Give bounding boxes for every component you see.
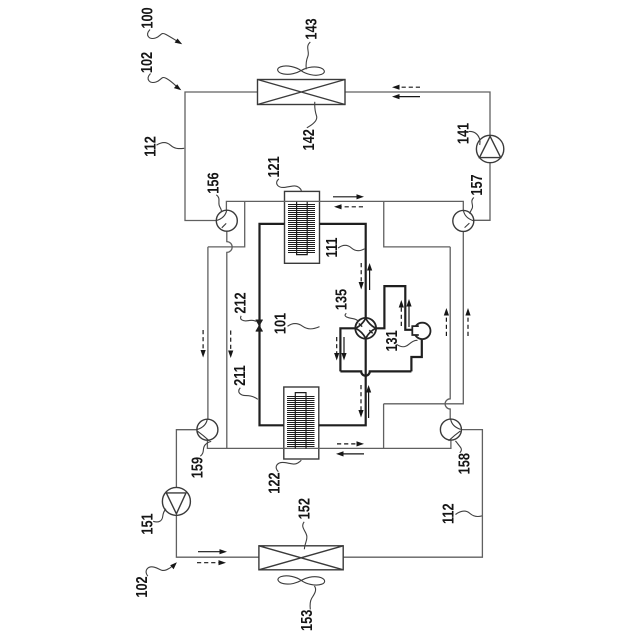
svg-text:142: 142: [301, 129, 319, 150]
compressor 131 (circle with terminal tab): [412, 323, 430, 339]
svg-text:212: 212: [232, 292, 250, 313]
label 159 with leader: [189, 441, 211, 478]
refrigerant U-tube inside HX 122: [295, 393, 306, 449]
flow arrows: right of HX121: [333, 194, 364, 209]
flow arrows: refrigerant line above valve 135: [359, 263, 373, 290]
svg-text:102: 102: [139, 52, 157, 73]
svg-text:153: 153: [299, 610, 317, 631]
wire: refrigerant loop left side (HX121 left - pipe 211 - HX122 left): [260, 224, 285, 425]
svg-text:112: 112: [142, 136, 160, 157]
svg-text:141: 141: [455, 123, 473, 144]
wire: left vertical to valve 159 top: [207, 247, 209, 430]
flow arrows: left water verticals (pointing down): [201, 330, 234, 358]
wire: valve 157 bottom down then left: [384, 221, 464, 404]
label 122 with leader: [266, 460, 301, 494]
svg-text:158: 158: [456, 453, 474, 474]
svg-text:135: 135: [333, 289, 351, 310]
four-way valve 135 (circle with diamond): [355, 318, 376, 339]
flow arrows: compressor discharge riser (pointing up): [399, 299, 412, 327]
three-way valve 158: [440, 419, 461, 441]
label 152 with leader: [296, 498, 314, 549]
label 111 with leader: [324, 238, 365, 258]
three-way valve 156: [216, 210, 237, 231]
pump 151 (circle with triangle, apex down): [162, 487, 190, 515]
wire: suction line with hop over main pipe: [340, 371, 411, 375]
wire: left branch from top line down (T at x=244.7): [208, 201, 245, 247]
wire: top water loop left (HX142 left to valve 156): [185, 92, 258, 221]
heat exchanger 122 (indoor plate HX, outer box): [284, 387, 319, 459]
flow arrows: refrigerant line below valve 135: [358, 385, 371, 418]
wire: refrigerant loop right bottom (valve 135 to HX122 right): [319, 339, 366, 426]
label 101 with leader: [272, 313, 319, 334]
svg-text:121: 121: [266, 156, 284, 177]
label 142 with leader: [301, 102, 319, 151]
label 135 with leader: [333, 289, 358, 321]
label 156 with leader: [205, 172, 223, 212]
svg-text:102: 102: [134, 576, 152, 597]
svg-text:211: 211: [232, 365, 250, 386]
wire: bottom water loop left (valve 159 through pump 151 to HX152): [176, 430, 259, 558]
refrigerant U-tube inside HX 121: [297, 202, 308, 255]
label 211 with leader: [232, 365, 258, 399]
flow arrows: right of HX122: [336, 441, 364, 456]
svg-text:159: 159: [189, 457, 207, 478]
fan 153 (propeller): [278, 576, 325, 585]
svg-text:157: 157: [469, 174, 487, 195]
three-way valve 157: [453, 210, 474, 231]
label 157 with leader: [469, 174, 487, 213]
hatch fins of heat exchanger 122: [287, 397, 315, 447]
label 102 (bottom) with arrow leader: [134, 562, 177, 597]
heat exchanger 121 (indoor plate HX, outer box): [285, 191, 320, 263]
label 131 with leader: [384, 330, 418, 351]
label 212 with leader: [232, 292, 256, 321]
three-way valve 159: [197, 419, 218, 441]
svg-text:112: 112: [440, 503, 458, 524]
flow arrows: right water verticals (pointing up): [444, 308, 471, 336]
wire: inner bottom water line (valve 159 bottom - HX122 - valve 158 bottom): [207, 430, 451, 449]
flow arrows: bottom outer loop (pointing right): [197, 549, 227, 565]
flow arrows: valve 135 left suction drop (pointing down): [334, 337, 347, 361]
label 121 with leader: [266, 156, 302, 191]
fan 143 (propeller): [278, 66, 325, 75]
wire: refrigerant loop right top (HX121 right to four-way valve 135): [320, 224, 366, 318]
label 158 with leader: [455, 441, 474, 474]
svg-text:143: 143: [303, 18, 321, 39]
label 143 with leader: [303, 18, 321, 69]
svg-text:152: 152: [296, 498, 314, 519]
svg-text:131: 131: [384, 330, 402, 351]
label 153 with leader: [299, 586, 317, 631]
heat exchanger 152 (outdoor coil, crossed box): [259, 546, 343, 570]
label 100 with arrow leader: [139, 7, 182, 44]
wire: bottom water loop right (valve 158 to HX152 right): [343, 430, 482, 558]
heat exchanger 142 (outdoor coil, crossed box): [258, 80, 346, 105]
svg-text:151: 151: [139, 513, 157, 534]
label 102 (top) with arrow leader: [139, 52, 181, 90]
expansion valve 212 (bowtie on pipe 211): [256, 320, 263, 331]
wire: drop from y=403.8 to bottom water line: [383, 404, 385, 449]
label 141 with leader: [455, 123, 480, 145]
wire: valve 156 bottom straight down with crossing hop: [227, 221, 232, 449]
wire: staircase pipe up to compressor 131: [411, 340, 421, 372]
svg-text:100: 100: [139, 7, 157, 28]
flow arrows: top outer loop (pointing left): [392, 85, 420, 100]
svg-text:156: 156: [205, 172, 223, 193]
hatch fins of heat exchanger 121: [288, 205, 315, 253]
label 112 (top left) with leader: [142, 136, 184, 157]
svg-text:101: 101: [272, 313, 290, 334]
label 112 (bottom right) with leader: [440, 503, 482, 524]
wire: right vertical to valve 158 top with crossing hop: [445, 247, 450, 430]
wire: inner top water line (valve 156 top - HX121 - valve 157 top): [226, 201, 463, 221]
wire: top water loop right (HX142 right through pump 141 to valve 157): [345, 92, 490, 220]
wire: four-way valve left port down to suction line: [340, 328, 355, 371]
wire: discharge pipe from valve 135 right port over to compressor: [376, 286, 414, 330]
label 151 with leader: [139, 509, 166, 535]
svg-text:122: 122: [266, 472, 284, 493]
pump 141 (circle with triangle, apex up): [476, 135, 503, 162]
wire: right branch from top line down (T at x=383.75): [384, 201, 450, 247]
